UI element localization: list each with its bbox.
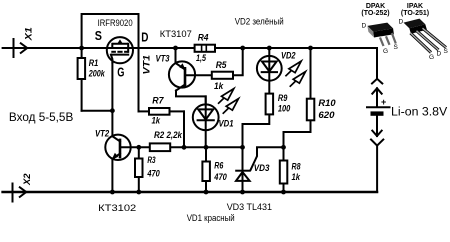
resistor R4 — [195, 45, 215, 52]
svg-text:DPAK: DPAK — [366, 3, 385, 10]
VD1 light arrow 1 — [219, 89, 234, 104]
svg-text:R2 2,2k: R2 2,2k — [154, 130, 183, 141]
svg-text:100: 100 — [278, 104, 291, 115]
svg-text:S: S — [95, 28, 102, 43]
svg-text:(TO-252): (TO-252) — [361, 10, 389, 17]
svg-text:R5: R5 — [216, 60, 227, 71]
wire R7 right down to base node — [183, 111, 185, 147]
svg-text:1k: 1k — [152, 116, 161, 127]
resistor R9 — [243, 94, 274, 148]
svg-text:VT2: VT2 — [95, 128, 110, 139]
LED VD1 — [193, 96, 219, 147]
svg-text:VD1 красный: VD1 красный — [187, 213, 235, 223]
svg-text:КТ3107: КТ3107 — [160, 29, 192, 39]
svg-text:IRFR9020: IRFR9020 — [98, 18, 133, 28]
svg-text:R6: R6 — [214, 160, 224, 171]
node VD3 rail junction — [240, 190, 245, 195]
node REF junction — [281, 145, 286, 150]
battery minus plate — [371, 111, 384, 115]
wire R1 bottom to gate node — [82, 110, 113, 112]
svg-text:D: D — [437, 51, 442, 58]
svg-text:S: S — [394, 44, 399, 51]
node R5 rail junction — [240, 46, 245, 51]
svg-text:G: G — [383, 48, 388, 55]
svg-text:VD3: VD3 — [254, 163, 270, 174]
svg-text:X1: X1 — [23, 27, 34, 41]
svg-text:(TO-251): (TO-251) — [401, 10, 429, 17]
svg-text:D: D — [141, 30, 148, 45]
zener VD3 TL431 — [235, 147, 251, 192]
svg-text:R7: R7 — [152, 96, 164, 107]
svg-text:VD3 TL431: VD3 TL431 — [227, 202, 272, 212]
wire battery branch top — [376, 48, 378, 79]
svg-text:VD1: VD1 — [219, 119, 234, 130]
resistor R10 — [284, 48, 315, 147]
svg-text:КТ3102: КТ3102 — [98, 203, 136, 213]
connector arrow up — [372, 88, 381, 107]
resistor R3 — [135, 147, 143, 192]
node R3 top junction — [136, 145, 141, 150]
svg-text:R1: R1 — [89, 58, 99, 69]
op mosfet VT1 IRFR9020 — [107, 37, 133, 63]
wire box over mosfet (S to R7) — [82, 14, 139, 111]
svg-text:R8: R8 — [292, 161, 302, 172]
svg-text:S: S — [444, 48, 449, 55]
node VD3 top junction — [240, 145, 245, 150]
node R6 rail junction — [204, 190, 209, 195]
svg-text:VD2: VD2 — [281, 50, 296, 61]
svg-text:200k: 200k — [88, 69, 105, 80]
resistor R5 — [212, 72, 233, 79]
node gate junction — [110, 108, 115, 113]
node junction S (main wire / R1 / box wire) — [79, 46, 84, 51]
svg-text:D: D — [399, 19, 404, 26]
wire VT2 base to R2 — [121, 146, 149, 148]
svg-text:470: 470 — [214, 172, 228, 183]
svg-text:R4: R4 — [198, 32, 209, 43]
VD2 light arrow 1 — [286, 61, 301, 76]
node R3 rail junction — [136, 190, 141, 195]
resistor R2 — [150, 143, 170, 151]
node VT3 emitter junction — [173, 46, 178, 51]
battery plus plate — [366, 106, 391, 108]
node VD2 rail junction — [267, 46, 272, 51]
wire gate vertical to VT2 collector — [111, 63, 113, 137]
node R10 rail junction — [308, 46, 313, 51]
resistor R1 — [78, 48, 86, 111]
terminal X2 — [13, 183, 27, 203]
terminal X1 — [14, 38, 28, 58]
svg-text:VT1: VT1 — [141, 55, 152, 75]
wire R2 right to node A — [171, 146, 242, 148]
svg-text:R10: R10 — [318, 98, 336, 109]
connector chevron top — [372, 79, 382, 84]
node VD1 cathode junction — [204, 145, 209, 150]
svg-text:1,5: 1,5 — [196, 53, 207, 64]
node R7 junction — [182, 145, 187, 150]
svg-text:620: 620 — [318, 110, 335, 121]
wire bottom rail — [3, 191, 377, 194]
wire VT3 base to R5 — [186, 74, 211, 76]
connector arrow down — [372, 116, 381, 136]
wire REF to VD3 — [251, 147, 284, 170]
resistor R7 — [139, 108, 185, 115]
svg-text:D: D — [362, 23, 367, 30]
wire main top rail left part — [3, 47, 194, 49]
svg-text:R3: R3 — [147, 155, 156, 166]
svg-text:VD2 зелёный: VD2 зелёный — [235, 17, 284, 27]
transistor VT2 KT3102 — [105, 135, 130, 192]
VD1 light arrow 2 — [223, 99, 238, 114]
svg-text:VT3: VT3 — [156, 53, 171, 64]
svg-text:R9: R9 — [278, 93, 288, 104]
package DPAK drawing — [362, 23, 399, 56]
svg-text:Вход 5-5,5В: Вход 5-5,5В — [9, 110, 74, 124]
node VT2 emitter rail junction — [110, 190, 115, 195]
LED VD2 — [257, 48, 282, 93]
package IPAK drawing — [399, 19, 449, 62]
svg-text:X2: X2 — [22, 173, 33, 186]
wire R5 right up to rail — [234, 48, 243, 75]
svg-text:G: G — [429, 54, 434, 61]
resistor R6 — [202, 147, 210, 192]
svg-text:1k: 1k — [214, 81, 224, 92]
resistor R8 — [280, 147, 288, 192]
svg-text:1k: 1k — [292, 172, 301, 183]
VD2 light arrow 2 — [290, 72, 305, 87]
svg-text:G: G — [117, 65, 124, 80]
svg-text:Li-on 3.8V: Li-on 3.8V — [391, 107, 448, 119]
svg-text:+: + — [381, 97, 386, 107]
node R8 rail junction — [281, 190, 286, 195]
svg-text:IPAK: IPAK — [407, 3, 423, 10]
transistor VT3 KT3107 — [169, 48, 206, 103]
svg-text:470: 470 — [147, 169, 161, 180]
connector chevron bottom — [371, 140, 383, 193]
wire main top rail right part — [216, 47, 377, 49]
